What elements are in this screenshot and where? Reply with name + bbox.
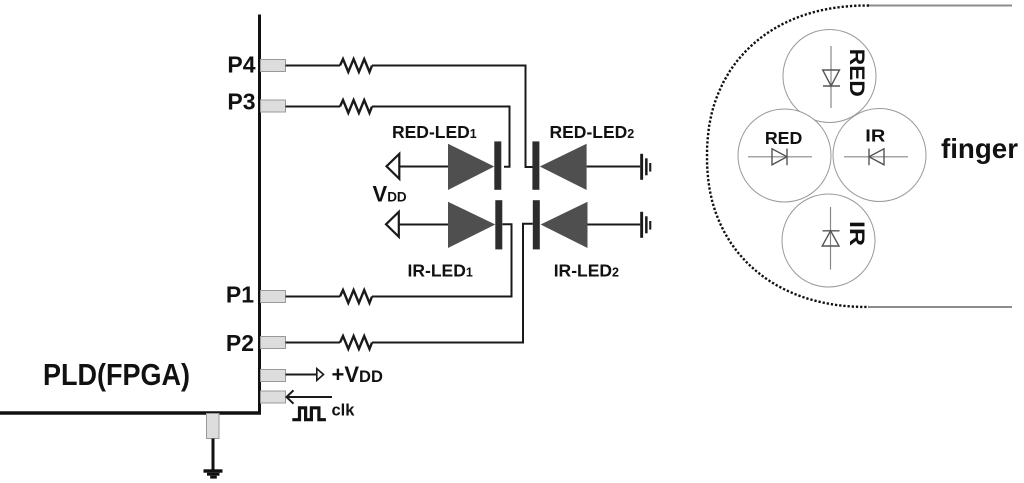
diode symbol in right circle (points left) xyxy=(844,149,908,166)
PLD(FPGA) block right edge xyxy=(258,15,261,415)
svg-text:P1: P1 xyxy=(226,281,254,307)
LED RED-LED1 anode triangle xyxy=(448,144,494,190)
svg-text:P2: P2 xyxy=(226,330,254,356)
VDD terminal arrow (row 1) xyxy=(387,154,400,179)
pin P2 xyxy=(261,337,286,349)
wire P1 pin to resistor xyxy=(286,296,341,298)
LED IR-LED1 anode triangle xyxy=(448,202,495,248)
ground (row 2) xyxy=(640,212,651,238)
finger outline dotted arc xyxy=(707,6,869,308)
resistor (P2 branch) xyxy=(340,336,372,349)
finger outline top line xyxy=(869,5,1012,7)
sensor circle left (RED) xyxy=(738,109,831,202)
clk waveform symbol xyxy=(292,408,326,420)
LED IR-LED2 anode triangle xyxy=(541,202,588,248)
svg-text:VDD: VDD xyxy=(373,181,407,206)
wire P1 resistor to IR-LED1 cathode xyxy=(372,224,512,296)
wire VDD arrow to IR-LED1 anode xyxy=(399,224,455,226)
+VDD terminal wire and arrow xyxy=(286,374,318,376)
svg-text:IR: IR xyxy=(865,125,885,145)
LED IR-LED2 cathode bar xyxy=(533,200,540,249)
svg-text:RED-LED1: RED-LED1 xyxy=(392,122,477,142)
ground (row 1) xyxy=(640,154,651,180)
wire P4 resistor to RED-LED2 cathode xyxy=(372,66,533,168)
LED RED-LED2 cathode bar xyxy=(532,141,539,189)
svg-text:IR-LED1: IR-LED1 xyxy=(408,261,473,281)
svg-text:P3: P3 xyxy=(227,89,255,115)
wire IR-LED2 anode to ground xyxy=(588,224,641,226)
LED RED-LED1 cathode bar xyxy=(494,141,501,189)
svg-text:RED-LED2: RED-LED2 xyxy=(550,122,635,142)
sensor circle top (RED) xyxy=(783,30,876,123)
wire P2 resistor to IR-LED2 cathode xyxy=(372,224,533,343)
pin +VDD xyxy=(261,370,286,382)
pin P1 xyxy=(261,291,286,303)
svg-text:RED: RED xyxy=(765,128,803,148)
PLD(FPGA) block bottom edge xyxy=(0,411,261,415)
sensor circle right (IR) xyxy=(833,109,926,202)
LED RED-LED2 anode triangle xyxy=(540,144,587,190)
diode symbol in bottom circle (points up) xyxy=(822,207,839,270)
resistor (P1 branch) xyxy=(340,290,372,303)
ground (bottom, stepped) xyxy=(204,469,223,478)
wire VDD arrow to RED-LED1 anode xyxy=(399,166,455,168)
finger outline bottom line xyxy=(869,306,1012,308)
GND wire below bottom pin xyxy=(212,439,215,471)
pin GND (bottom) xyxy=(207,414,220,439)
svg-text:P4: P4 xyxy=(227,51,255,77)
wire P3 pin to resistor xyxy=(286,106,341,108)
svg-text:IR: IR xyxy=(845,221,868,246)
wire RED-LED2 anode to ground xyxy=(587,166,641,168)
diode symbol in left circle (points right) xyxy=(748,149,812,166)
svg-text:+VDD: +VDD xyxy=(332,362,383,387)
wire P4 pin to resistor xyxy=(286,65,341,67)
resistor (P4 branch) xyxy=(340,59,372,72)
wire P3 resistor to RED-LED1 cathode xyxy=(372,107,510,167)
LED IR-LED1 cathode bar xyxy=(495,200,502,249)
clk input arrow xyxy=(287,396,333,398)
svg-text:IR-LED2: IR-LED2 xyxy=(554,261,619,281)
pin P3 xyxy=(261,100,286,112)
svg-text:PLD(FPGA): PLD(FPGA) xyxy=(43,357,190,392)
VDD terminal arrow (row 2) xyxy=(386,212,399,237)
svg-text:finger: finger xyxy=(941,133,1018,164)
pin clk xyxy=(261,391,286,403)
sensor circle bottom (IR) xyxy=(782,194,875,287)
diode symbol in top circle (points down) xyxy=(823,46,840,108)
svg-text:RED: RED xyxy=(845,49,868,97)
pin P4 xyxy=(261,60,286,72)
resistor (P3 branch) xyxy=(340,100,372,113)
wire P2 pin to resistor xyxy=(286,342,341,344)
svg-text:clk: clk xyxy=(332,401,356,419)
